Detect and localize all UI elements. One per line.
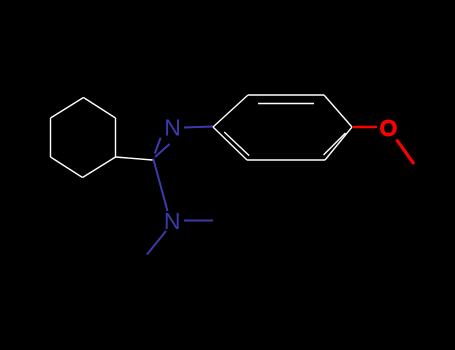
wire TL-T (51, 98, 84, 119)
double bond C=N1 (155, 138, 170, 157)
wire N2 to right methyl (184, 220, 213, 222)
wire BR to central C (116, 157, 153, 160)
benzene ring (213, 95, 352, 160)
inner line of BL-L double bond (224, 132, 249, 156)
svg-text:O: O (380, 115, 398, 141)
inner line of R-BR double bond (324, 133, 346, 155)
cyclohexane ring (left hexagon) (51, 98, 116, 178)
svg-text:N: N (164, 208, 181, 234)
wire BL-TL (50, 118, 52, 157)
wire T-TR (84, 98, 116, 119)
wire TR-BR (115, 118, 117, 157)
wire R-BR (325, 127, 352, 160)
wire TR-R (324, 95, 352, 127)
svg-text:N: N (164, 115, 181, 141)
wire B-BL (51, 157, 83, 178)
wire L-TL (213, 95, 248, 127)
wire BL-L (213, 127, 247, 160)
wire N2 to lower-left methyl (147, 231, 166, 255)
wire C to N2 (153, 159, 167, 212)
wire N1 to phenyl (184, 127, 213, 128)
wire O to methyl (397, 140, 415, 165)
wire phenyl to O (353, 126, 377, 129)
inner line of top double bond (258, 103, 314, 105)
wire TL-TR (248, 94, 324, 96)
wire BR-BL (247, 159, 325, 161)
wire BR-B (83, 157, 116, 178)
